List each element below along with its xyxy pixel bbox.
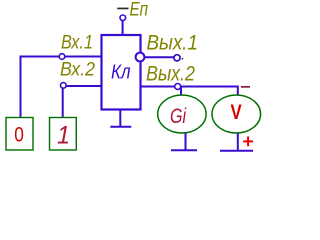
- wire power stub: [122, 21, 124, 35]
- connector Вых.2: [175, 84, 181, 90]
- svg-text:Вых.1: Вых.1: [147, 31, 199, 54]
- generator Gi ellipse: [158, 95, 206, 133]
- svg-text:1: 1: [57, 121, 70, 149]
- wire Вх.1 from box 0 up and right to block: [21, 57, 102, 118]
- node connector Вх.2: [61, 83, 67, 89]
- svg-text:Еп: Еп: [130, 0, 149, 20]
- svg-text:V: V: [231, 100, 243, 124]
- power terminal circle: [120, 15, 126, 21]
- node dot right of Вых.1 terminal: [182, 58, 184, 60]
- ground under Gi: bar: [171, 149, 197, 151]
- logic source box 1: [50, 118, 77, 151]
- ground under Gi: stub: [185, 133, 187, 150]
- voltmeter V ellipse: [212, 95, 261, 133]
- minus sign of Еп: [117, 8, 128, 10]
- ground under V: stub: [237, 133, 239, 151]
- ground under block: bar: [110, 126, 131, 128]
- svg-text:0: 0: [14, 123, 24, 147]
- wire stub to Gi top: [180, 88, 182, 96]
- node circle on block right edge: [136, 53, 145, 62]
- ground under block: stub: [119, 110, 121, 127]
- switch block Кл: [102, 35, 141, 110]
- logic source box 0: [6, 118, 33, 151]
- svg-text:Кл: Кл: [111, 61, 131, 84]
- minus terminal mark of V: [241, 86, 250, 88]
- terminal Вых.1 open circle: [174, 55, 180, 61]
- ground under V: bar: [220, 150, 253, 152]
- plus terminal mark of V: [243, 140, 253, 142]
- svg-text:Вых.2: Вых.2: [146, 63, 195, 86]
- svg-text:Gi: Gi: [170, 105, 187, 128]
- svg-text:Вх.1: Вх.1: [61, 32, 93, 53]
- wire Вх.2 from box 1 up and right to block: [63, 86, 102, 118]
- svg-text:Вх.2: Вх.2: [60, 59, 95, 80]
- wire Вых.1: [144, 56, 174, 58]
- node connector on Вх.1 wire: [59, 54, 65, 60]
- wire Вых.2 from block to V top: [141, 87, 238, 96]
